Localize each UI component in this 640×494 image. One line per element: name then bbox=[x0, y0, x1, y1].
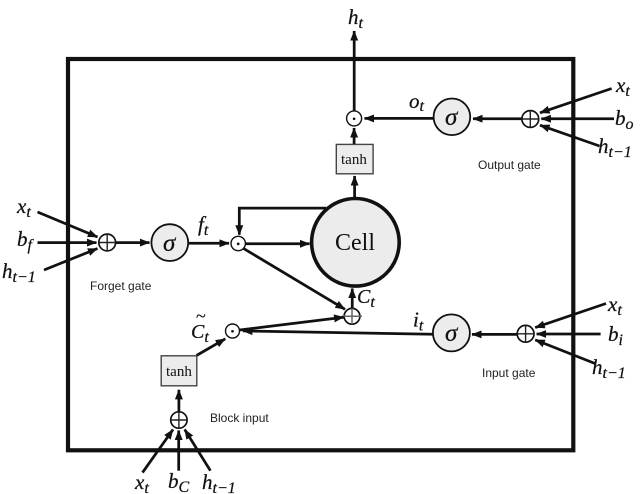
wire b_C to add_b bbox=[177, 431, 180, 471]
wire h_t-1 to add_i bbox=[535, 340, 595, 364]
wire sigma_f to multiply_f bbox=[188, 242, 229, 245]
wire h_t-1 to add_b bbox=[185, 430, 211, 471]
svg-text:xt: xt bbox=[134, 470, 149, 494]
svg-text:tanh: tanh bbox=[166, 364, 192, 380]
multiply node (forget gate product) bbox=[231, 236, 245, 250]
wire h_t-1 to add_f bbox=[44, 249, 98, 271]
multiply node (output gate product) bbox=[347, 111, 362, 126]
outer LSTM block border bbox=[68, 59, 573, 450]
tanh box (output branch) bbox=[336, 144, 373, 173]
wire add_o to sigma_o bbox=[473, 117, 523, 120]
wire add_f to sigma_f bbox=[115, 241, 149, 244]
svg-text:tanh: tanh bbox=[341, 152, 367, 168]
sigmoid unit sigma (forget gate) bbox=[151, 224, 188, 261]
wire h_t output bbox=[353, 31, 356, 111]
wire h_t-1 to add_o bbox=[540, 125, 600, 146]
add node C_t (cell state sum) bbox=[342, 308, 362, 324]
wire add_i to sigma_i bbox=[472, 333, 517, 336]
svg-text:ht−1: ht−1 bbox=[598, 134, 632, 161]
wire x_t to add_f bbox=[38, 212, 98, 237]
wire b_o to add_o bbox=[541, 117, 614, 120]
tanh box (block input) bbox=[161, 356, 197, 386]
wire sigma_i to multiply_c bbox=[243, 331, 433, 334]
wire cell to tanh bbox=[353, 176, 356, 200]
wire multiply_f to add_C bbox=[243, 248, 345, 309]
svg-text:ht−1: ht−1 bbox=[592, 355, 626, 382]
svg-text:Forget gate: Forget gate bbox=[90, 279, 152, 293]
wire b_f to add_f bbox=[38, 241, 97, 244]
svg-text:bf: bf bbox=[17, 227, 35, 254]
svg-text:Ct: Ct bbox=[191, 321, 209, 346]
wire multiply_c to add_C bbox=[240, 317, 344, 330]
svg-text:bC: bC bbox=[168, 469, 190, 494]
wire x_t to add_i bbox=[535, 304, 606, 328]
recurrent loop wire cell to multiply_f bbox=[239, 208, 326, 235]
svg-text:Ct: Ct bbox=[357, 286, 375, 311]
svg-text:xt: xt bbox=[615, 73, 630, 100]
svg-text:ot: ot bbox=[409, 89, 425, 115]
svg-text:σ: σ bbox=[445, 320, 459, 347]
label C~_t (candidate) bbox=[191, 306, 209, 346]
svg-text:Input gate: Input gate bbox=[482, 366, 536, 380]
wire b_i to add_i bbox=[537, 333, 601, 336]
svg-text:it: it bbox=[413, 308, 424, 335]
wire tanh to multiply_o bbox=[353, 128, 356, 144]
wire add_C to cell bbox=[351, 289, 354, 309]
sigmoid unit sigma (output gate) bbox=[434, 99, 471, 136]
svg-text:ht: ht bbox=[348, 5, 364, 32]
svg-text:σ: σ bbox=[445, 104, 459, 131]
multiply node (input gate product) bbox=[226, 324, 240, 338]
svg-text:ht−1: ht−1 bbox=[202, 470, 236, 494]
svg-text:σ: σ bbox=[163, 230, 177, 257]
add node (block input) bbox=[171, 412, 188, 429]
add node (output gate) bbox=[522, 111, 539, 128]
svg-text:ft: ft bbox=[198, 212, 209, 239]
wire x_t to add_b bbox=[143, 430, 174, 473]
svg-text:xt: xt bbox=[16, 194, 31, 221]
add node (input gate) bbox=[517, 325, 534, 342]
add node (forget gate) bbox=[99, 234, 116, 251]
svg-text:ht−1: ht−1 bbox=[2, 259, 36, 286]
sigmoid unit sigma (input gate) bbox=[433, 314, 470, 351]
wire x_t to add_o bbox=[540, 89, 612, 113]
cell state circle bbox=[312, 199, 400, 287]
svg-text:bo: bo bbox=[615, 106, 634, 133]
svg-text:Cell: Cell bbox=[335, 230, 375, 256]
svg-text:Block input: Block input bbox=[210, 411, 269, 425]
wire sigma_o to multiply_o bbox=[365, 117, 434, 120]
wire tanh_b to multiply_c bbox=[197, 339, 226, 356]
wire multiply_f to cell bbox=[246, 242, 310, 245]
svg-text:xt: xt bbox=[607, 292, 622, 319]
wire add_b to tanh_b bbox=[178, 390, 181, 412]
svg-text:Output gate: Output gate bbox=[478, 158, 541, 172]
svg-text:bi: bi bbox=[608, 322, 623, 349]
